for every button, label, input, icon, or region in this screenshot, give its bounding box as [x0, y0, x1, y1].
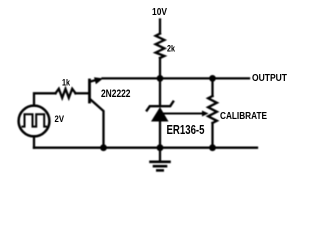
wire: R2 bottom to node A	[159, 58, 161, 78]
ground bar 2	[154, 165, 166, 168]
wiper arrowhead	[202, 111, 209, 117]
square-wave source VS circle	[19, 106, 50, 137]
wire: pot top dot down to zigzag	[211, 78, 213, 96]
wiper wire from zener to potentiometer	[164, 113, 202, 115]
bottom rail wire	[34, 147, 257, 149]
svg-text:2V: 2V	[55, 114, 65, 124]
resistor R2 2k (vertical zigzag)	[156, 34, 165, 59]
wire: 10V supply down to R2 top	[159, 20, 161, 34]
zener D1 triangle (anode, pointing up)	[151, 107, 169, 122]
svg-text:2k: 2k	[167, 44, 176, 54]
wire: R1 to Q1 base	[76, 92, 89, 94]
wire: source top up and right to R1	[34, 93, 56, 105]
source bottom lead	[33, 136, 35, 147]
potentiometer body (vertical zigzag)	[208, 96, 217, 123]
top rail wire (node A to OUTPUT)	[103, 77, 250, 79]
junction dot potentiometer bottom at bottom rail	[209, 144, 216, 151]
junction dot Q1 collector at bottom rail	[100, 144, 107, 151]
zener D1 cathode bar with bent ends	[147, 102, 173, 111]
svg-text:10V: 10V	[152, 7, 167, 18]
svg-text:ER136-5: ER136-5	[167, 123, 205, 137]
transistor Q1 base bar	[88, 80, 91, 102]
resistor R1 1k (horizontal zigzag)	[56, 89, 76, 98]
Q1 bottom lead down to bottom rail	[91, 100, 104, 148]
wire: node A down to zener cathode	[159, 78, 161, 106]
wire: zener anode down to bottom rail	[159, 122, 161, 148]
ground bar 3	[157, 169, 162, 172]
svg-text:CALIBRATE: CALIBRATE	[220, 111, 267, 122]
ground bar 1	[151, 161, 170, 164]
junction dot potentiometer top	[209, 75, 216, 82]
svg-text:2N2222: 2N2222	[101, 88, 131, 100]
junction dot node A	[157, 75, 164, 82]
square-wave glyph inside source	[23, 114, 47, 126]
wire: pot bottom to bottom rail	[211, 123, 213, 148]
svg-text:1k: 1k	[62, 78, 71, 88]
svg-text:OUTPUT: OUTPUT	[252, 73, 288, 84]
junction dot zener anode at bottom rail	[157, 144, 164, 151]
Q1 top lead with emitter arrow	[91, 80, 99, 82]
ground stem	[159, 148, 161, 161]
